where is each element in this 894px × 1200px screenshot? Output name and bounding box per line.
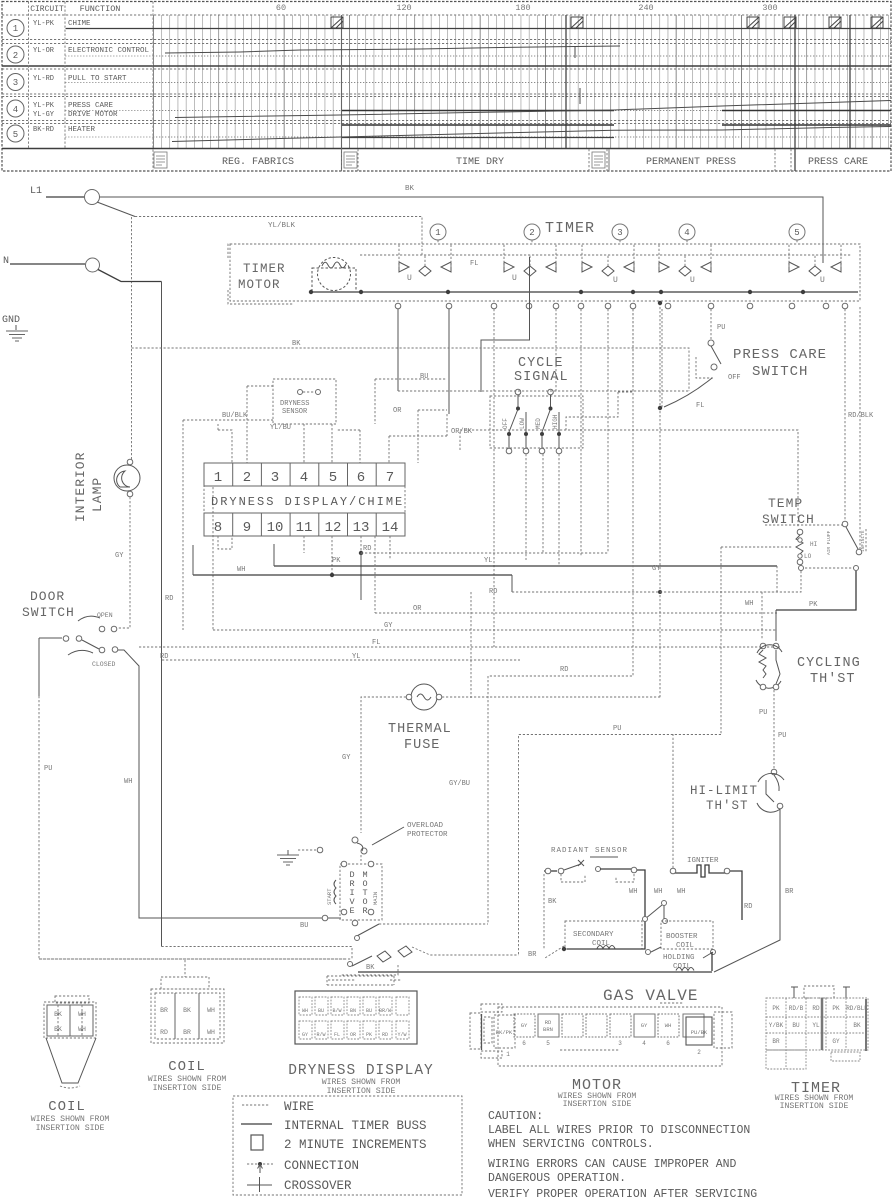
svg-text:4: 4 xyxy=(300,470,308,486)
svg-text:LAMP: LAMP xyxy=(90,477,105,512)
radiant sensor left drop xyxy=(543,874,545,949)
svg-text:GY: GY xyxy=(342,754,351,762)
svg-text:GY: GY xyxy=(115,552,124,560)
cam contact group 4 xyxy=(659,244,711,285)
svg-text:HOLDING: HOLDING xyxy=(663,954,695,962)
svg-text:PK: PK xyxy=(832,1005,840,1012)
svg-text:TIMER: TIMER xyxy=(243,262,286,276)
svg-text:BR/W: BR/W xyxy=(379,1008,391,1014)
svg-text:PU: PU xyxy=(44,765,52,773)
wire door common down xyxy=(38,638,40,696)
cam contact group 3 xyxy=(582,244,634,285)
circuit codes xyxy=(33,20,55,134)
svg-text:PRESS CARE: PRESS CARE xyxy=(733,347,827,363)
cam contact group 1 xyxy=(399,244,451,283)
svg-text:WIRE: WIRE xyxy=(284,1100,314,1114)
svg-text:3: 3 xyxy=(617,228,622,238)
svg-text:WH: WH xyxy=(78,1026,86,1033)
svg-text:60: 60 xyxy=(276,3,286,13)
svg-text:BR: BR xyxy=(183,1029,191,1036)
svg-text:PU/BK: PU/BK xyxy=(691,1029,708,1036)
svg-text:BK: BK xyxy=(292,340,301,348)
wire L1 diagonal to YL/BLK xyxy=(97,202,135,217)
wire fuse left to overload xyxy=(361,697,406,833)
svg-text:YL: YL xyxy=(352,653,360,661)
timer inner top dashed buss xyxy=(360,254,852,256)
wire YL end drop xyxy=(776,566,778,592)
junction timer motor left xyxy=(309,290,313,294)
svg-text:RD: RD xyxy=(812,1005,820,1012)
svg-text:12: 12 xyxy=(325,520,342,536)
cycle signal switches xyxy=(509,395,559,432)
sub-row dashed lines xyxy=(65,29,153,138)
dryness sensor xyxy=(273,379,336,424)
terminal N xyxy=(86,258,100,272)
svg-text:COIL: COIL xyxy=(168,1059,206,1075)
svg-text:RD: RD xyxy=(363,545,371,553)
svg-text:BU: BU xyxy=(420,373,428,381)
svg-text:N: N xyxy=(3,256,9,267)
svg-text:CROSSOVER: CROSSOVER xyxy=(284,1179,352,1193)
wire fuse to press care FL xyxy=(442,696,660,698)
svg-text:WHEN SERVICING CONTROLS.: WHEN SERVICING CONTROLS. xyxy=(488,1138,654,1151)
svg-text:GY: GY xyxy=(652,565,661,573)
svg-text:10: 10 xyxy=(267,520,284,536)
svg-text:YL: YL xyxy=(484,557,492,565)
svg-text:LO: LO xyxy=(804,553,812,560)
svg-text:R: R xyxy=(362,906,367,916)
svg-text:TIME DRY: TIME DRY xyxy=(456,157,504,168)
gas valve feed line xyxy=(358,971,712,973)
svg-text:MOTOR: MOTOR xyxy=(238,278,281,292)
chart outer border xyxy=(2,2,891,172)
svg-text:YL-GY: YL-GY xyxy=(33,111,55,119)
svg-text:WH: WH xyxy=(629,888,637,896)
timer motor dashed box xyxy=(228,244,294,304)
svg-text:PU: PU xyxy=(613,725,621,733)
wire BK long dashed y=348 xyxy=(132,348,690,391)
svg-text:2: 2 xyxy=(697,1049,701,1056)
svg-text:BK: BK xyxy=(366,964,375,972)
junction dots on buss xyxy=(579,290,583,294)
svg-text:7: 7 xyxy=(386,470,394,486)
svg-text:DRIVE MOTOR: DRIVE MOTOR xyxy=(68,111,118,119)
svg-text:BK: BK xyxy=(405,185,415,193)
svg-text:YL/BU: YL/BU xyxy=(270,424,291,432)
svg-text:COIL: COIL xyxy=(676,942,695,950)
svg-text:CYCLING: CYCLING xyxy=(797,656,861,671)
svg-text:RD/B: RD/B xyxy=(789,1005,804,1012)
cycle signal bottom wires xyxy=(526,454,559,566)
svg-text:LOW: LOW xyxy=(519,418,526,429)
wire WH to cycling xyxy=(762,571,801,640)
svg-text:RD: RD xyxy=(165,595,173,603)
svg-text:4: 4 xyxy=(13,105,18,115)
svg-text:BU: BU xyxy=(300,922,308,930)
svg-text:START: START xyxy=(326,888,333,905)
cycle signal terminals bottom xyxy=(506,448,512,454)
svg-text:6: 6 xyxy=(522,1040,526,1047)
wire YL/BLK xyxy=(135,217,422,248)
svg-text:DRYNESS: DRYNESS xyxy=(280,400,309,408)
circled row numbers xyxy=(7,20,24,143)
timer cam contact groups xyxy=(399,244,841,285)
cam trace row1 chime line xyxy=(66,28,891,30)
svg-text:RD: RD xyxy=(489,588,497,596)
svg-text:BR: BR xyxy=(160,1007,168,1014)
wire N lead xyxy=(10,263,85,265)
svg-text:TIMER: TIMER xyxy=(545,220,595,237)
svg-text:INTERIOR: INTERIOR xyxy=(73,452,88,522)
svg-text:REG. FABRICS: REG. FABRICS xyxy=(222,157,294,168)
wire N diagonal xyxy=(98,270,162,282)
svg-text:Y/BK: Y/BK xyxy=(769,1022,784,1029)
svg-text:PK: PK xyxy=(332,557,341,565)
svg-text:SWITCH: SWITCH xyxy=(22,605,75,620)
svg-text:CYCLE: CYCLE xyxy=(518,356,564,371)
svg-text:WH: WH xyxy=(78,1011,86,1018)
svg-text:SENSOR: SENSOR xyxy=(282,408,308,416)
chart vertical dividers xyxy=(28,2,30,149)
wire BK hi-limit down xyxy=(714,809,780,972)
svg-text:HI-LIMIT: HI-LIMIT xyxy=(690,784,758,798)
svg-text:PK: PK xyxy=(366,1032,372,1038)
svg-text:6: 6 xyxy=(666,1040,670,1047)
wire RD thermal branch xyxy=(488,309,633,924)
chime hatched marks xyxy=(331,17,883,28)
svg-text:VERIFY PROPER OPERATION AFTER: VERIFY PROPER OPERATION AFTER SERVICING xyxy=(488,1188,757,1200)
svg-text:3: 3 xyxy=(13,78,18,88)
junction RD xyxy=(359,551,363,555)
wire N neutral vertical buss xyxy=(161,282,163,947)
svg-text:TH'ST: TH'ST xyxy=(706,799,749,813)
svg-text:BU: BU xyxy=(318,1008,324,1014)
svg-text:DRYNESS DISPLAY: DRYNESS DISPLAY xyxy=(288,1063,434,1079)
svg-text:BK: BK xyxy=(853,1022,861,1029)
svg-text:INFINITE: INFINITE xyxy=(860,530,866,552)
svg-text:U: U xyxy=(820,276,825,285)
svg-text:WIRES SHOWN FROM: WIRES SHOWN FROM xyxy=(322,1078,401,1087)
svg-text:PK: PK xyxy=(809,601,818,609)
timer terminal circles row xyxy=(395,303,848,309)
svg-text:BK: BK xyxy=(54,1026,62,1033)
timer section circled numbers xyxy=(430,224,805,240)
cycle signal box xyxy=(490,396,583,448)
svg-text:BK: BK xyxy=(183,1007,191,1014)
svg-text:FL: FL xyxy=(372,639,380,647)
svg-text:BK-RD: BK-RD xyxy=(33,126,54,134)
svg-text:E: E xyxy=(349,906,354,916)
svg-text:HEATER: HEATER xyxy=(68,126,96,134)
svg-text:WH: WH xyxy=(124,778,132,786)
svg-text:PULL TO START: PULL TO START xyxy=(68,75,127,83)
svg-text:FL: FL xyxy=(334,1032,340,1038)
svg-text:GY: GY xyxy=(384,622,393,630)
cam contact group 2 xyxy=(504,244,556,283)
svg-text:WH: WH xyxy=(745,600,753,608)
svg-text:3: 3 xyxy=(271,470,279,486)
chart fine grid (2 minute increments) xyxy=(153,15,891,149)
svg-text:OR: OR xyxy=(350,1032,356,1038)
svg-text:120: 120 xyxy=(396,3,411,13)
svg-text:1: 1 xyxy=(435,228,440,238)
timer dashed enclosure xyxy=(230,244,860,301)
svg-text:13: 13 xyxy=(353,520,370,536)
svg-text:WH: WH xyxy=(237,566,245,574)
coil connector 2 xyxy=(148,960,227,1093)
svg-text:YL/BLK: YL/BLK xyxy=(268,222,296,230)
wire temp switch enclosure left drop xyxy=(721,547,792,734)
svg-text:RD: RD xyxy=(560,666,568,674)
timer motor coil symbol xyxy=(312,258,356,293)
cam trace row4 press care / drive motor xyxy=(342,110,614,112)
svg-text:WH: WH xyxy=(665,1022,672,1029)
svg-text:PRESS CARE: PRESS CARE xyxy=(808,157,868,168)
svg-text:YL: YL xyxy=(812,1022,820,1029)
svg-text:RD/BLK: RD/BLK xyxy=(846,1005,868,1012)
svg-text:TEMP: TEMP xyxy=(768,496,803,511)
timer connector xyxy=(766,986,868,1111)
svg-text:4: 4 xyxy=(642,1040,646,1047)
svg-text:SECONDARY: SECONDARY xyxy=(573,931,614,939)
cycle band labels xyxy=(222,157,868,168)
cam trace row5 heater xyxy=(342,124,614,126)
svg-text:WH: WH xyxy=(207,1007,215,1014)
wire PU cycling to hi-limit xyxy=(773,690,775,770)
svg-text:WH: WH xyxy=(654,888,662,896)
wire lamp to door switch xyxy=(118,497,130,628)
svg-text:R/W: R/W xyxy=(316,1032,325,1038)
svg-text:INSERTION SIDE: INSERTION SIDE xyxy=(327,1087,396,1096)
svg-text:FL: FL xyxy=(470,260,478,268)
wire GY xyxy=(213,629,777,631)
wire L1 lead xyxy=(46,196,84,198)
svg-text:U: U xyxy=(407,274,412,283)
cycle signal terminals top xyxy=(515,389,521,395)
svg-text:BR: BR xyxy=(528,951,537,959)
svg-text:DANGEROUS OPERATION.: DANGEROUS OPERATION. xyxy=(488,1172,626,1185)
svg-text:CAUTION:: CAUTION: xyxy=(488,1110,543,1123)
bottom cycle band dividers xyxy=(342,149,792,171)
thermal fuse xyxy=(411,684,437,710)
svg-text:THERMAL: THERMAL xyxy=(388,722,452,737)
wires descending from timer terminals xyxy=(397,309,399,391)
svg-text:5: 5 xyxy=(329,470,337,486)
motor connector xyxy=(470,1003,732,1109)
cycling thermostat xyxy=(760,643,766,649)
wire door sw to drive motor xyxy=(118,650,341,918)
svg-text:CONNECTION: CONNECTION xyxy=(284,1159,359,1173)
svg-text:WH: WH xyxy=(302,1008,308,1014)
svg-text:GY: GY xyxy=(641,1022,648,1029)
svg-text:300: 300 xyxy=(762,3,777,13)
svg-text:SWITCH: SWITCH xyxy=(752,364,808,380)
svg-text:DRYNESS DISPLAY/CHIME: DRYNESS DISPLAY/CHIME xyxy=(211,495,404,509)
svg-text:GAS VALVE: GAS VALVE xyxy=(603,987,698,1005)
svg-text:ELECTRONIC CONTROL: ELECTRONIC CONTROL xyxy=(68,47,150,55)
svg-text:B/W: B/W xyxy=(332,1008,341,1014)
svg-text:BRN: BRN xyxy=(543,1026,553,1033)
svg-text:BU/BLK: BU/BLK xyxy=(222,412,248,420)
svg-text:BK: BK xyxy=(54,1011,62,1018)
svg-text:CLOSED: CLOSED xyxy=(92,661,116,668)
svg-text:OR: OR xyxy=(393,407,402,415)
cycle signal feed xyxy=(480,356,482,392)
svg-text:U: U xyxy=(512,274,517,283)
wire stubs circled numbers to timer box xyxy=(438,240,797,244)
ground at motor xyxy=(298,849,316,851)
svg-text:FUNCTION: FUNCTION xyxy=(80,4,121,14)
svg-text:BU: BU xyxy=(366,1008,372,1014)
overload into motor xyxy=(360,855,362,861)
drive motor xyxy=(340,864,382,920)
svg-text:YL-PK: YL-PK xyxy=(33,102,55,110)
svg-text:U: U xyxy=(613,276,618,285)
svg-text:INTERNAL TIMER BUSS: INTERNAL TIMER BUSS xyxy=(284,1119,427,1133)
svg-text:WH: WH xyxy=(677,888,685,896)
wire press care vertical x660 long xyxy=(659,303,661,698)
svg-text:RD: RD xyxy=(545,1019,552,1026)
svg-text:WH: WH xyxy=(207,1029,215,1036)
svg-text:INSERTION SIDE: INSERTION SIDE xyxy=(780,1102,849,1111)
cam trace row2 electronic control xyxy=(165,46,620,53)
svg-text:GY: GY xyxy=(521,1022,528,1029)
svg-text:240: 240 xyxy=(638,3,653,13)
svg-text:6: 6 xyxy=(357,470,365,486)
svg-text:5: 5 xyxy=(794,228,799,238)
svg-text:3: 3 xyxy=(618,1040,622,1047)
svg-text:2: 2 xyxy=(529,228,534,238)
svg-text:INSERTION SIDE: INSERTION SIDE xyxy=(36,1124,105,1133)
dark cycle boundary verticals xyxy=(341,15,343,171)
svg-text:IGNITER: IGNITER xyxy=(687,857,719,865)
svg-text:BR: BR xyxy=(772,1038,780,1045)
svg-text:BK: BK xyxy=(548,898,557,906)
svg-text:HIGH: HIGH xyxy=(552,414,559,429)
cam contact group 5 xyxy=(789,244,841,285)
svg-text:CIRCUIT: CIRCUIT xyxy=(30,5,64,14)
svg-text:OR/BK: OR/BK xyxy=(451,428,473,436)
cycle band icons xyxy=(154,152,605,168)
svg-text:YL-RD: YL-RD xyxy=(33,75,54,83)
svg-text:PK: PK xyxy=(772,1005,780,1012)
terminal L1 xyxy=(85,190,100,205)
svg-text:RD: RD xyxy=(160,653,168,661)
chart horizontal row lines xyxy=(2,14,891,16)
svg-text:BOOSTER: BOOSTER xyxy=(666,933,698,941)
svg-text:FUSE: FUSE xyxy=(404,738,440,753)
svg-text:TH'ST: TH'ST xyxy=(810,672,856,687)
svg-text:SIGNAL: SIGNAL xyxy=(514,370,569,385)
svg-text:OR: OR xyxy=(413,605,422,613)
booster coil xyxy=(661,921,713,949)
dryness display chime block xyxy=(204,463,405,536)
svg-text:GY: GY xyxy=(302,1032,308,1038)
svg-text:PERMANENT PRESS: PERMANENT PRESS xyxy=(646,157,736,168)
svg-text:14: 14 xyxy=(382,520,399,536)
svg-text:WIRES SHOWN FROM: WIRES SHOWN FROM xyxy=(148,1075,227,1084)
svg-text:PRESS CARE: PRESS CARE xyxy=(68,102,114,110)
svg-text:DOOR: DOOR xyxy=(30,589,65,604)
svg-text:YL-OR: YL-OR xyxy=(33,47,55,55)
svg-text:RD: RD xyxy=(382,1032,388,1038)
svg-text:L1: L1 xyxy=(30,186,42,197)
function names xyxy=(68,20,150,134)
solid WH line xyxy=(193,574,512,576)
svg-text:RD: RD xyxy=(744,903,752,911)
svg-text:2: 2 xyxy=(13,51,18,61)
wire PK solid xyxy=(776,571,856,610)
junction timer motor right xyxy=(446,290,450,294)
svg-text:FL: FL xyxy=(696,402,704,410)
wire N to motor dashes xyxy=(162,947,353,961)
svg-text:U: U xyxy=(690,276,695,285)
svg-text:GY: GY xyxy=(832,1038,840,1045)
wire YL long xyxy=(162,659,520,661)
svg-text:WIRES SHOWN FROM: WIRES SHOWN FROM xyxy=(31,1115,110,1124)
svg-text:YL-PK: YL-PK xyxy=(33,20,55,28)
wire GY/BU vertical xyxy=(470,592,472,698)
svg-text:4: 4 xyxy=(684,228,689,238)
svg-text:RD: RD xyxy=(160,1029,168,1036)
svg-text:OVERLOAD: OVERLOAD xyxy=(407,822,444,830)
svg-text:PU: PU xyxy=(717,324,725,332)
svg-text:LABEL ALL WIRES PRIOR TO DISCO: LABEL ALL WIRES PRIOR TO DISCONNECTION xyxy=(488,1124,750,1137)
coil connector 1 (funnel) xyxy=(31,996,110,1133)
svg-text:PU: PU xyxy=(778,732,786,740)
svg-text:COIL: COIL xyxy=(48,1099,86,1115)
svg-text:9: 9 xyxy=(243,520,251,536)
wire RD right xyxy=(512,591,777,593)
wire BK L1 buss to right xyxy=(100,197,824,263)
centrifugal switch xyxy=(39,958,345,960)
svg-text:RADIANT SENSOR: RADIANT SENSOR xyxy=(551,847,628,855)
svg-text:HI: HI xyxy=(810,541,817,548)
solid YL line xyxy=(274,565,777,567)
secondary coil xyxy=(565,921,642,949)
svg-text:MAIN: MAIN xyxy=(372,892,379,905)
wire PU to radiant sensor xyxy=(519,735,722,956)
svg-text:Y/W: Y/W xyxy=(397,1032,406,1038)
motor switch blade xyxy=(355,924,379,937)
svg-text:OFF: OFF xyxy=(728,374,741,382)
svg-text:INSERTION SIDE: INSERTION SIDE xyxy=(563,1100,632,1109)
wire press care to FL node xyxy=(664,378,712,407)
dryness display connector xyxy=(288,980,434,1096)
svg-text:5: 5 xyxy=(546,1040,550,1047)
svg-text:OFF: OFF xyxy=(502,418,509,429)
svg-text:2: 2 xyxy=(243,470,251,486)
hi-limit thermostat xyxy=(771,769,777,775)
svg-text:1: 1 xyxy=(214,470,222,486)
svg-text:CHIME: CHIME xyxy=(68,20,91,28)
svg-text:1: 1 xyxy=(506,1051,510,1058)
svg-text:AIR FLUFF: AIR FLUFF xyxy=(826,530,832,555)
svg-text:INSERTION SIDE: INSERTION SIDE xyxy=(153,1084,222,1093)
svg-text:WIRING ERRORS CAN CAUSE IMPROP: WIRING ERRORS CAN CAUSE IMPROPER AND xyxy=(488,1158,737,1171)
svg-text:1: 1 xyxy=(13,24,18,34)
wire FL long xyxy=(139,646,780,648)
svg-text:GY/BU: GY/BU xyxy=(449,780,470,788)
svg-text:BU: BU xyxy=(792,1022,800,1029)
svg-text:PU: PU xyxy=(759,709,767,717)
svg-text:RD/BLK: RD/BLK xyxy=(848,412,874,420)
svg-text:GND: GND xyxy=(2,315,20,326)
coil junction to WH switch xyxy=(645,905,662,919)
wires below dryness display xyxy=(218,536,232,549)
svg-text:8: 8 xyxy=(214,520,222,536)
svg-text:MED: MED xyxy=(535,418,542,429)
